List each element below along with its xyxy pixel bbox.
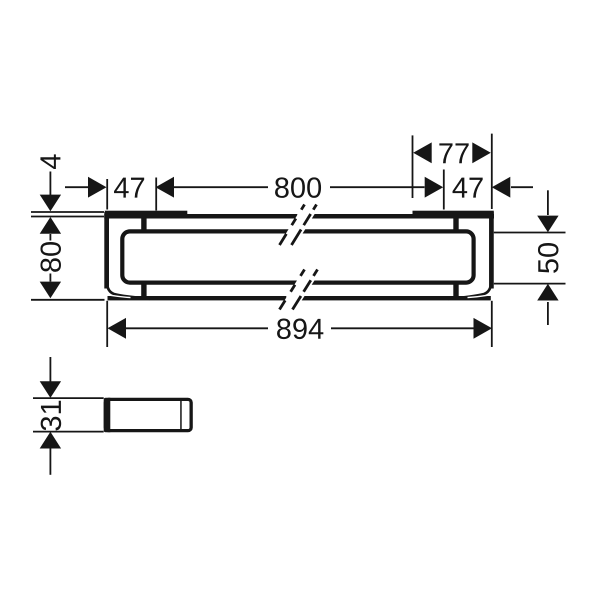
- dim line 50 vertical stub: [547, 302, 549, 325]
- dim line 50 vertical upper: [547, 190, 549, 215]
- extension line mount right center: [443, 170, 445, 210]
- label 47 right: [453, 178, 483, 198]
- extension line 31 top: [33, 397, 104, 399]
- break slash bottom 1: [280, 270, 305, 310]
- corner sliver white left: [111, 295, 131, 297]
- dim line 4 vertical: [49, 172, 51, 196]
- arrow 47 right pointing left: [492, 177, 511, 198]
- extension line mount left center: [155, 178, 157, 211]
- towel tube (inner rounded rectangle): [122, 231, 473, 282]
- wall plate right (front view): [413, 211, 494, 217]
- label 31 rotated: [41, 401, 62, 431]
- arrow 77 right pointing right: [472, 142, 491, 163]
- dim line 47 left: [65, 186, 89, 188]
- arrow 50 top pointing down: [537, 216, 558, 233]
- label 47 left: [114, 178, 144, 198]
- dim line 31 vertical lower: [49, 448, 51, 475]
- extension line 50 bottom: [494, 283, 566, 285]
- dim line 800 left part: [173, 186, 268, 188]
- side view seam line: [180, 401, 182, 429]
- end-cap seam bottom-right: [448, 283, 491, 299]
- extension line bar left below: [106, 301, 108, 347]
- break gap white-out bottom: [278, 267, 324, 312]
- side view wall plate bar: [104, 398, 111, 433]
- break gap white-out top: [278, 203, 322, 248]
- extension line 77 left: [412, 135, 414, 198]
- arrow 800 left pointing left: [156, 177, 175, 198]
- label 50 rotated: [538, 243, 559, 273]
- arrow 80 bottom pointing down: [40, 282, 61, 299]
- arrow 80 top pointing up: [40, 217, 61, 234]
- label 77: [439, 143, 468, 163]
- dim line 894 right part: [331, 327, 474, 329]
- bar top line right segment: [309, 214, 494, 219]
- extension line 4 lower: [31, 216, 104, 218]
- extension line 31 bottom: [33, 431, 104, 433]
- extension line bar left above: [106, 179, 108, 210]
- label 894: [277, 319, 323, 340]
- bar top line left segment: [104, 214, 297, 219]
- extension line bar right below: [491, 301, 493, 347]
- arrow 894 right pointing right: [474, 318, 493, 339]
- dim line 80 vertical lower: [49, 274, 51, 282]
- extension line 4 upper: [31, 211, 104, 213]
- extension line bar right above: [491, 134, 493, 209]
- label 4 rotated: [40, 154, 60, 169]
- break slash top 1: [280, 205, 305, 246]
- arrow 800 right / 47 right-left pointing right: [425, 177, 444, 198]
- bar right edge: [489, 212, 494, 289]
- label 800: [275, 177, 321, 198]
- break slash bottom 2: [293, 270, 318, 310]
- dim line 31 vertical upper: [49, 357, 51, 382]
- wall plate left (front view): [105, 211, 188, 217]
- connector right top: [453, 215, 458, 232]
- break slash top 2: [292, 205, 317, 246]
- dim line 80 vertical upper: [49, 234, 51, 241]
- extension line 80 bottom: [31, 299, 105, 301]
- bar left edge: [104, 212, 109, 289]
- corner sliver white right: [468, 295, 488, 297]
- dim line 800 right part: [330, 186, 425, 188]
- dim line 894 left part: [126, 327, 268, 329]
- connector left bottom: [141, 281, 146, 299]
- side view outer shell: [105, 399, 191, 430]
- arrow 47 left pointing right: [88, 177, 107, 198]
- arrow 50 bottom pointing up: [537, 284, 558, 301]
- bar bottom line right segment: [300, 296, 491, 300]
- end-cap seam bottom-left: [107, 283, 150, 299]
- connector left top: [141, 215, 146, 232]
- bar bottom line left segment: [108, 296, 287, 300]
- arrow 31 bottom pointing up: [40, 432, 61, 449]
- arrow 894 left pointing left: [108, 318, 127, 339]
- extension line 50 top: [494, 232, 566, 234]
- label 80 rotated: [40, 242, 61, 272]
- dim line 47 right stub: [511, 186, 533, 188]
- connector right bottom: [453, 281, 458, 299]
- arrow 77 left pointing left: [413, 142, 432, 163]
- arrow 4 pointing down: [40, 195, 61, 212]
- arrow 31 top pointing down: [40, 381, 61, 398]
